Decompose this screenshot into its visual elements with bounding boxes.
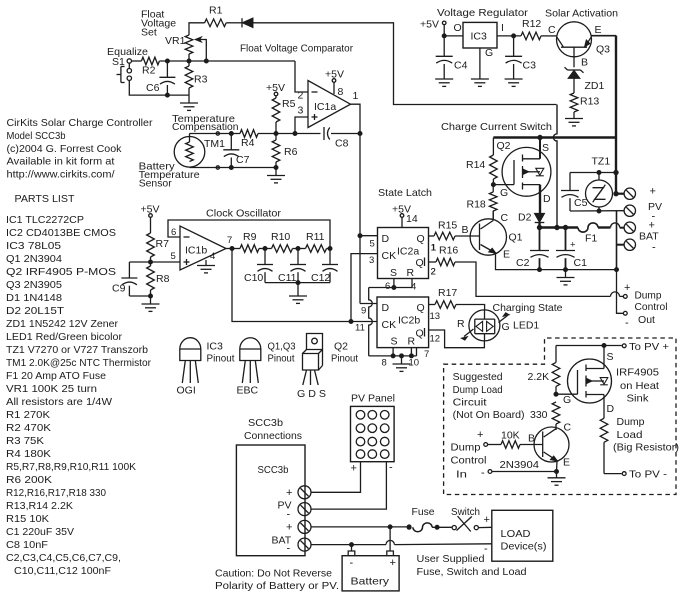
resistor 330 [530, 402, 560, 427]
capacitor C4 [436, 36, 468, 79]
transistor Q4 2N3904 [500, 427, 571, 471]
svg-text:Switch: Switch [451, 506, 480, 518]
svg-text:D2 20L15T: D2 20L15T [6, 305, 65, 317]
svg-text:TZ1: TZ1 [592, 156, 611, 168]
svg-text:C3: C3 [523, 60, 537, 72]
wire clock to IC2a CK [351, 254, 378, 322]
svg-text:C1: C1 [574, 257, 588, 269]
svg-text:G: G [500, 187, 508, 199]
svg-text:Set: Set [141, 27, 157, 39]
wire R4 to pin3 node [258, 132, 297, 136]
svg-text:LED1: LED1 [513, 320, 539, 332]
ground at IC2b [393, 364, 411, 371]
resistor R15 [429, 220, 458, 254]
svg-text:-: - [287, 543, 291, 555]
wire TM1 bottom rail [190, 166, 277, 170]
resistor R11 [306, 231, 327, 252]
svg-text:LED1 Red/Green bicolor: LED1 Red/Green bicolor [6, 331, 122, 343]
svg-text:Q1: Q1 [509, 232, 523, 244]
svg-text:2: 2 [431, 267, 436, 278]
svg-text:R5: R5 [282, 98, 296, 110]
svg-text:E: E [595, 24, 602, 36]
op-amp IC1b [171, 226, 227, 270]
label To PV + [629, 341, 669, 353]
svg-text:C10: C10 [244, 272, 263, 284]
wire IC1a output [351, 90, 363, 304]
dump control in + terminal [477, 429, 501, 446]
svg-text:R12: R12 [522, 18, 541, 30]
mosfet Q2 [502, 142, 551, 205]
label Float Voltage Comparator [240, 43, 353, 55]
svg-text:B: B [581, 57, 588, 69]
VR1 wiper [196, 37, 207, 61]
wire to PV+ top [556, 344, 626, 348]
svg-text:To PV -: To PV - [629, 469, 668, 481]
svg-text:C5: C5 [574, 197, 588, 209]
wire D1 to BAT+ feed [253, 23, 557, 105]
svg-text:Connections: Connections [244, 430, 302, 442]
svg-text:F1 20 Amp ATO Fuse: F1 20 Amp ATO Fuse [6, 370, 106, 382]
transistor Q3 [557, 22, 611, 69]
diode D2 [518, 212, 544, 228]
svg-text:Clock Oscillator: Clock Oscillator [206, 208, 282, 220]
resistor 10K [501, 430, 520, 449]
transistor Q1 [470, 212, 523, 261]
svg-text:R1 270K: R1 270K [6, 409, 50, 421]
svg-text:1: 1 [353, 90, 359, 102]
label Q2 pinout [297, 341, 358, 401]
led LED1 [457, 310, 510, 341]
wire IC2a S,R tie [369, 279, 412, 290]
ground at C1 [557, 270, 575, 285]
label Battery Temperature Sensor [139, 161, 200, 190]
dashed dump load box [444, 338, 676, 495]
svg-text:LOAD: LOAD [501, 528, 531, 540]
resistor dump load [600, 418, 608, 473]
wire osc cap rail [265, 281, 330, 285]
wire IC1b output [226, 235, 240, 251]
capacitor C3 [505, 36, 536, 79]
pinout Q2 TO-220 [303, 334, 323, 386]
svg-text:Control: Control [635, 301, 668, 313]
wire PV+ lead [311, 462, 361, 493]
svg-text:R3: R3 [194, 74, 208, 86]
svg-text:D1 1N4148: D1 1N4148 [6, 292, 62, 304]
terminal PV+ [624, 188, 635, 199]
wire Q1 collector [492, 211, 494, 221]
capacitor C2 [516, 228, 549, 270]
svg-text:To PV +: To PV + [629, 341, 669, 353]
svg-text:Solar Activation: Solar Activation [545, 8, 618, 20]
svg-text:R14: R14 [466, 159, 485, 171]
label Clock Oscillator [206, 208, 282, 220]
svg-text:Q3 2N3905: Q3 2N3905 [6, 279, 62, 291]
svg-text:Q2 IRF4905 P-MOS: Q2 IRF4905 P-MOS [6, 266, 116, 278]
label PV Panel [351, 393, 395, 405]
ground at C3 [505, 79, 523, 86]
svg-text:Sink: Sink [627, 393, 650, 405]
led arrows [462, 313, 509, 340]
wire TZ1 bottom / PV- line [570, 207, 624, 213]
wire to PV- bottom [604, 472, 626, 476]
wire BAT- stub [617, 244, 624, 246]
label Solar Activation [545, 8, 618, 20]
svg-text:12: 12 [430, 334, 441, 345]
svg-text:S: S [390, 267, 397, 279]
svg-text:TM1: TM1 [204, 138, 225, 150]
svg-text:+: + [570, 240, 576, 251]
svg-text:7: 7 [227, 235, 232, 246]
node R10-R11 [293, 247, 306, 251]
label Charge Current Switch [441, 121, 552, 133]
capacitor C1 [556, 228, 587, 270]
svg-text:+: + [390, 557, 396, 569]
wire BAT+ feed riser [553, 105, 557, 228]
svg-text:IC2b: IC2b [398, 315, 420, 327]
svg-text:2N3904: 2N3904 [500, 459, 540, 471]
svg-text:+5V: +5V [141, 203, 160, 215]
parts list [6, 193, 151, 577]
wire solar plus riser [615, 36, 617, 195]
wire dump mosfet source [603, 346, 605, 369]
ground at R13 [565, 119, 583, 126]
svg-text:R1: R1 [209, 5, 223, 17]
wire dump mosfet drain [603, 395, 605, 419]
svg-text:+: + [477, 429, 483, 441]
svg-text:PARTS LIST: PARTS LIST [15, 193, 76, 205]
svg-text:+5V: +5V [325, 68, 344, 80]
svg-text:-: - [484, 543, 488, 555]
svg-text:Float Voltage Comparator: Float Voltage Comparator [240, 43, 353, 55]
svg-text:R2 470K: R2 470K [6, 422, 51, 434]
wire C9/R8 to ground [129, 294, 152, 304]
wire S1 to R2 [132, 60, 142, 62]
ground at dump [548, 472, 566, 486]
wire ZD1 to R13 [573, 78, 575, 93]
svg-text:Dump: Dump [635, 290, 662, 302]
svg-text:State Latch: State Latch [378, 187, 432, 199]
svg-text:O: O [454, 22, 462, 34]
svg-text:-: - [389, 462, 393, 474]
svg-text:Model SCC3b: Model SCC3b [7, 130, 66, 142]
svg-text:R17: R17 [438, 287, 457, 299]
svg-text:R9: R9 [243, 231, 257, 243]
resistor 2.2K [528, 346, 560, 397]
svg-text:R: R [408, 336, 416, 348]
regulator IC3 [463, 22, 497, 48]
svg-text:G: G [485, 47, 493, 59]
wire battery positive rail [537, 225, 578, 229]
svg-text:TZ1 V7270 or V727 Transzorb: TZ1 V7270 or V727 Transzorb [6, 344, 148, 356]
zener ZD1 [565, 67, 605, 92]
svg-text:+: + [286, 487, 292, 499]
wire - to emitter [492, 470, 559, 474]
svg-text:Device(s): Device(s) [501, 541, 547, 553]
svg-text:C: C [548, 24, 556, 36]
svg-text:D: D [607, 403, 615, 415]
info text [7, 117, 154, 181]
svg-text:Available in kit form at: Available in kit form at [7, 156, 115, 168]
svg-text:C: C [501, 212, 509, 224]
svg-text:R2: R2 [142, 65, 156, 77]
svg-text:3: 3 [369, 255, 374, 266]
svg-text:+5V: +5V [266, 82, 285, 94]
wire PV+ stub [614, 192, 624, 196]
svg-text:+: + [286, 522, 292, 534]
label Dump Control Out [625, 290, 668, 330]
resistor R17 [429, 287, 458, 308]
resistor R4 [240, 130, 258, 149]
svg-text:C2,C3,C4,C5,C6,C7,C9,: C2,C3,C4,C5,C6,C7,C9, [6, 552, 121, 564]
svg-text:Q: Q [417, 302, 425, 314]
switch S1 terminal [112, 56, 132, 68]
svg-text:-: - [652, 242, 656, 254]
wire VR1 top to R1 [189, 23, 205, 35]
svg-text:R3 75K: R3 75K [6, 435, 44, 447]
capacitor C6 [146, 61, 175, 95]
svg-text:R6: R6 [284, 146, 298, 158]
wire osc pin5 node [129, 260, 180, 264]
capacitor C12 [311, 249, 338, 285]
wire comparator input [295, 61, 308, 92]
svg-text:IRF4905: IRF4905 [616, 367, 659, 379]
dump control out + terminal [623, 282, 630, 298]
ground at R8 [142, 304, 160, 311]
svg-text:IC2 CD4013BE CMOS: IC2 CD4013BE CMOS [6, 227, 116, 239]
potentiometer VR1 [165, 35, 193, 54]
wire source rail [493, 135, 616, 139]
svg-text:Suggested: Suggested [453, 371, 503, 383]
wire F1 to BAT+ terminal [598, 223, 624, 228]
svg-text:C4: C4 [454, 60, 468, 72]
dump control in - terminal [481, 467, 492, 479]
wire R15 to Q1 base [455, 224, 480, 236]
resistor R10 [271, 231, 293, 252]
wire LED to IC2b pin12 [429, 330, 485, 348]
svg-text:IC3 78L05: IC3 78L05 [6, 240, 61, 252]
power +5V at R7 [141, 203, 160, 233]
wire R16 to dump ctl out [455, 262, 623, 296]
svg-text:ZD1: ZD1 [585, 80, 605, 92]
wire PV- lead [311, 462, 386, 509]
pin labels IC2a [369, 239, 436, 293]
label LED1 [513, 320, 539, 332]
label Dump Control In [451, 442, 487, 481]
wire negative riser [615, 211, 619, 272]
svg-text:Pinout: Pinout [331, 353, 358, 365]
label Charging State [493, 302, 563, 314]
svg-text:User Supplied: User Supplied [417, 553, 485, 565]
svg-text:3: 3 [298, 105, 304, 117]
svg-text:Dump Load: Dump Load [453, 384, 503, 396]
power +5V at IC3 [420, 19, 446, 38]
resistor R16 [429, 245, 459, 278]
terminal BAT+ conn [286, 520, 311, 533]
svg-text:2: 2 [298, 90, 304, 102]
svg-text:R4: R4 [241, 137, 255, 149]
svg-text:S: S [391, 336, 398, 348]
svg-text:Compensation: Compensation [172, 121, 239, 133]
capacitor C8 [295, 127, 360, 150]
labels PV [648, 186, 662, 223]
wire +5V to IC3 O pin [444, 22, 463, 36]
wire Q2 source [539, 138, 541, 159]
svg-text:Control: Control [451, 455, 487, 467]
svg-text:+: + [484, 514, 490, 526]
svg-text:Q1,Q3: Q1,Q3 [268, 341, 296, 353]
svg-text:C8: C8 [335, 138, 349, 150]
wire switch to load [478, 514, 491, 528]
svg-text:10K: 10K [501, 430, 520, 442]
svg-text:C6: C6 [146, 82, 160, 94]
svg-text:E: E [503, 249, 510, 261]
wire pin3 stub [295, 117, 308, 134]
resistor R1 [205, 5, 227, 27]
label Equalize [107, 46, 148, 58]
svg-text:(Not On Board): (Not On Board) [453, 409, 525, 421]
fuse F1 [578, 223, 598, 245]
svg-text:B: B [462, 224, 469, 236]
ground at osc [289, 283, 307, 304]
svg-text:D: D [382, 302, 390, 314]
label Float Voltage Set [141, 9, 176, 39]
wire IC3 out to R12 [497, 22, 521, 38]
ground at R6 [267, 166, 285, 183]
terminal BAT- conn [272, 535, 312, 555]
label To PV - [629, 469, 668, 481]
svg-text:7: 7 [424, 349, 429, 360]
svg-text:R13: R13 [580, 96, 599, 108]
wire battery - lead [351, 545, 353, 551]
svg-text:IC1a: IC1a [314, 101, 336, 113]
svg-text:Pinout: Pinout [268, 353, 295, 365]
svg-text:C1 220uF 35V: C1 220uF 35V [6, 526, 74, 538]
svg-text:R4 180K: R4 180K [6, 448, 51, 460]
svg-text:R16: R16 [439, 245, 458, 257]
resistor R18 [467, 185, 498, 220]
capacitor C5 [561, 173, 588, 212]
svg-text:S: S [542, 142, 549, 154]
label IC3 G pin [485, 47, 493, 59]
capacitor C9 [112, 262, 137, 296]
wire dump emitter [556, 461, 559, 472]
node R9-R10 [259, 247, 272, 251]
load box [484, 510, 553, 561]
svg-text:R12,R16,R17,R18 330: R12,R16,R17,R18 330 [6, 487, 106, 499]
PV panel polarity [351, 462, 394, 475]
label Voltage Regulator [437, 7, 529, 19]
svg-text:C: C [564, 422, 572, 434]
svg-text:I: I [501, 22, 504, 34]
svg-text:D2: D2 [518, 212, 532, 224]
switch user [452, 516, 478, 532]
svg-text:S: S [607, 351, 614, 363]
op-amp IC1b pin4 ground [197, 251, 215, 273]
svg-text:G: G [563, 394, 571, 406]
svg-text:OGI: OGI [177, 385, 196, 397]
pin labels IC2b [355, 311, 440, 369]
svg-text:In: In [456, 469, 467, 481]
label Temperature Compensation [172, 113, 239, 133]
svg-text:2.2K: 2.2K [528, 371, 550, 383]
svg-text:on Heat: on Heat [620, 380, 659, 392]
svg-text:1: 1 [431, 243, 436, 254]
power +5V at IC1a pin8 [325, 68, 344, 98]
svg-text:SCC3b: SCC3b [248, 417, 283, 429]
svg-text:CK: CK [382, 250, 397, 262]
wire dump out - stub [617, 270, 624, 314]
op-amp IC1a [298, 81, 351, 128]
svg-text:Q2: Q2 [334, 341, 348, 353]
resistor R14 [466, 138, 497, 187]
svg-text:4: 4 [210, 251, 215, 262]
terminal BAT+ [624, 222, 635, 233]
svg-text:G D S: G D S [297, 388, 326, 400]
svg-text:IC2a: IC2a [397, 246, 419, 258]
svg-text:D: D [543, 193, 551, 205]
label SCC3b Connections [244, 417, 302, 442]
svg-text:14: 14 [406, 213, 418, 225]
resistor R13 [570, 93, 599, 119]
thermistor TM1 [174, 134, 225, 168]
label Fuse [412, 506, 435, 518]
svg-text:Charging State: Charging State [493, 302, 563, 314]
node R11 end [327, 247, 333, 251]
svg-text:Voltage Regulator: Voltage Regulator [437, 7, 529, 19]
wire IC1b feedback [168, 220, 330, 249]
resistor R12 [521, 18, 541, 40]
svg-text:+: + [624, 282, 630, 294]
wire R2 to VR1 node [159, 59, 295, 63]
svg-text:F1: F1 [585, 233, 597, 245]
svg-text:R18: R18 [467, 199, 486, 211]
terminal PV- conn [278, 500, 312, 521]
svg-text:Q1 2N3904: Q1 2N3904 [6, 253, 62, 265]
svg-text:PV Panel: PV Panel [351, 393, 395, 405]
svg-text:-: - [287, 509, 291, 521]
wire TM1 top to R4 [190, 132, 241, 136]
svg-text:BAT: BAT [639, 231, 659, 243]
svg-text:Battery: Battery [351, 576, 390, 588]
diode D1 [242, 18, 253, 27]
wire gate [493, 185, 514, 199]
svg-text:+: + [650, 186, 656, 198]
wire 10K to base [520, 433, 543, 445]
svg-text:IC3: IC3 [471, 31, 488, 43]
pushbutton S1 [117, 63, 132, 82]
svg-text:R: R [457, 318, 465, 330]
svg-text:Q: Q [416, 257, 424, 269]
svg-text:Q: Q [416, 328, 424, 340]
capacitor C11 [278, 249, 306, 285]
svg-text:IC1b: IC1b [185, 245, 207, 257]
mosfet U2 IRF4905 [568, 351, 615, 415]
svg-text:ZD1 1N5242 12V Zener: ZD1 1N5242 12V Zener [6, 318, 119, 330]
svg-text:G: G [502, 321, 510, 333]
label State Latch [378, 187, 432, 199]
fuse user [407, 523, 452, 532]
svg-text:Out: Out [638, 314, 655, 326]
label IC3 pinout [177, 341, 235, 397]
svg-text:R: R [407, 267, 415, 279]
label Dump Load Big Resistor [613, 416, 679, 454]
wire battery + lead [389, 527, 391, 551]
terminal PV+ conn [286, 486, 311, 499]
wire IC3 ground [471, 48, 489, 86]
svg-text:IC1 TLC2272CP: IC1 TLC2272CP [6, 214, 84, 226]
power +5V at R5 [266, 82, 285, 98]
svg-text:R7: R7 [156, 238, 170, 250]
